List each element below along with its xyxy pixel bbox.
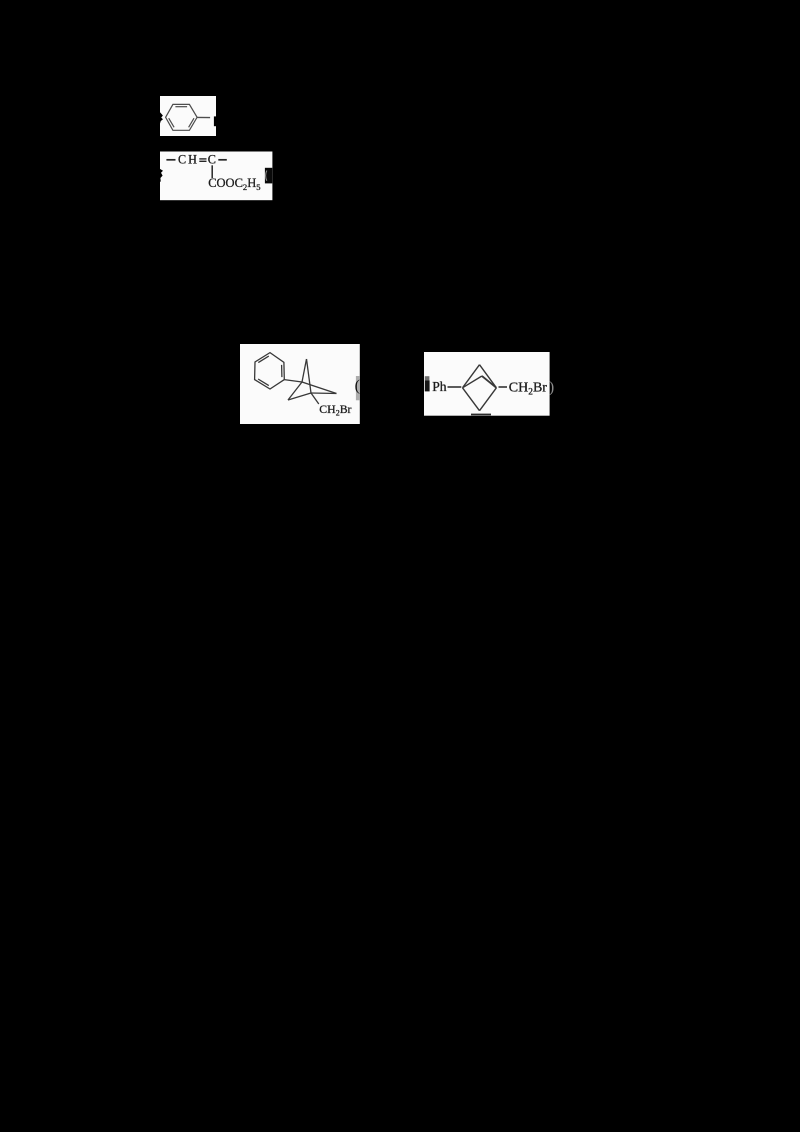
fragment box 1 (toluene) white background: [160, 96, 216, 136]
redaction notch right of box 1: [214, 116, 216, 126]
vertical bond C to COOC2H5: [211, 165, 213, 178]
svg-text:CH: CH: [178, 153, 199, 167]
svg-text:C: C: [208, 153, 216, 167]
bond dash after C: [218, 159, 227, 161]
double bond equals sign: [199, 158, 206, 160]
methyl bond 1: [197, 116, 210, 118]
bicyclopentane 3: apex to C1: [302, 359, 307, 382]
bicyclopentane 3: C1 to bottom-left: [288, 382, 302, 400]
benzene ring 1 double bond lower-right: [189, 118, 194, 127]
benzene ring 3 double bond lower-left: [258, 379, 269, 386]
fragment box 3 (phenyl bicyclopentane CH2Br) white background: [240, 344, 360, 424]
bicyclopentane 3: bottom-left to C3: [288, 393, 311, 400]
bond dash R to CH2Br: [499, 386, 508, 388]
bicyclopentane 4: middle peak to R: [482, 376, 497, 388]
svg-text:CH2Br: CH2Br: [509, 380, 547, 397]
svg-text:CH2Br: CH2Br: [319, 402, 351, 418]
bond phenyl to bridgehead C1: [284, 380, 302, 382]
bicyclopentane 3: C3 to right vertex: [311, 392, 337, 395]
gray bracket remnant in blob: [266, 171, 267, 181]
bicyclopentane 4: L to middle peak: [463, 376, 482, 388]
redaction remnant left of box 4: [425, 376, 430, 380]
benzene ring 1: [166, 104, 198, 130]
bicyclopentane 4: B to R: [480, 388, 497, 411]
svg-text:Ph: Ph: [432, 379, 447, 394]
faint smudge below bottom vertex: [471, 414, 491, 416]
benzene ring 1 double bond lower-left: [169, 118, 174, 127]
bond dash Ph to L: [448, 386, 462, 388]
bicyclopentane 4: T to R: [480, 365, 497, 388]
bond dash before CH: [166, 159, 175, 161]
benzene ring 1 double bond top: [175, 106, 187, 108]
benzene ring 3: [255, 353, 285, 389]
benzene ring 3 double bond upper-left: [258, 356, 269, 363]
gray strip at right edge of box 3: [356, 376, 360, 400]
benzene ring 3 double bond right: [281, 365, 283, 377]
fragment box 2 (acrylate unit) white background: [160, 152, 272, 201]
redaction remnant left of box 1: [160, 112, 163, 123]
svg-text:COOC2H5: COOC2H5: [208, 176, 260, 192]
bicyclopentane 4: T to L: [463, 365, 480, 388]
redaction blob right of box 2: [265, 168, 272, 184]
svg-text:): ): [549, 379, 554, 396]
bond C3 to CH2Br: [311, 393, 319, 404]
fragment box 4 (Ph bicyclopentane CH2Br) white background: [424, 352, 550, 416]
bicyclopentane 3: C1 to right vertex: [302, 382, 337, 394]
redaction remnant left of box 2: [159, 168, 163, 181]
bicyclopentane 4: L to B: [463, 388, 480, 411]
svg-text:(: (: [355, 378, 360, 395]
bicyclopentane 3: apex to C3: [307, 359, 312, 393]
